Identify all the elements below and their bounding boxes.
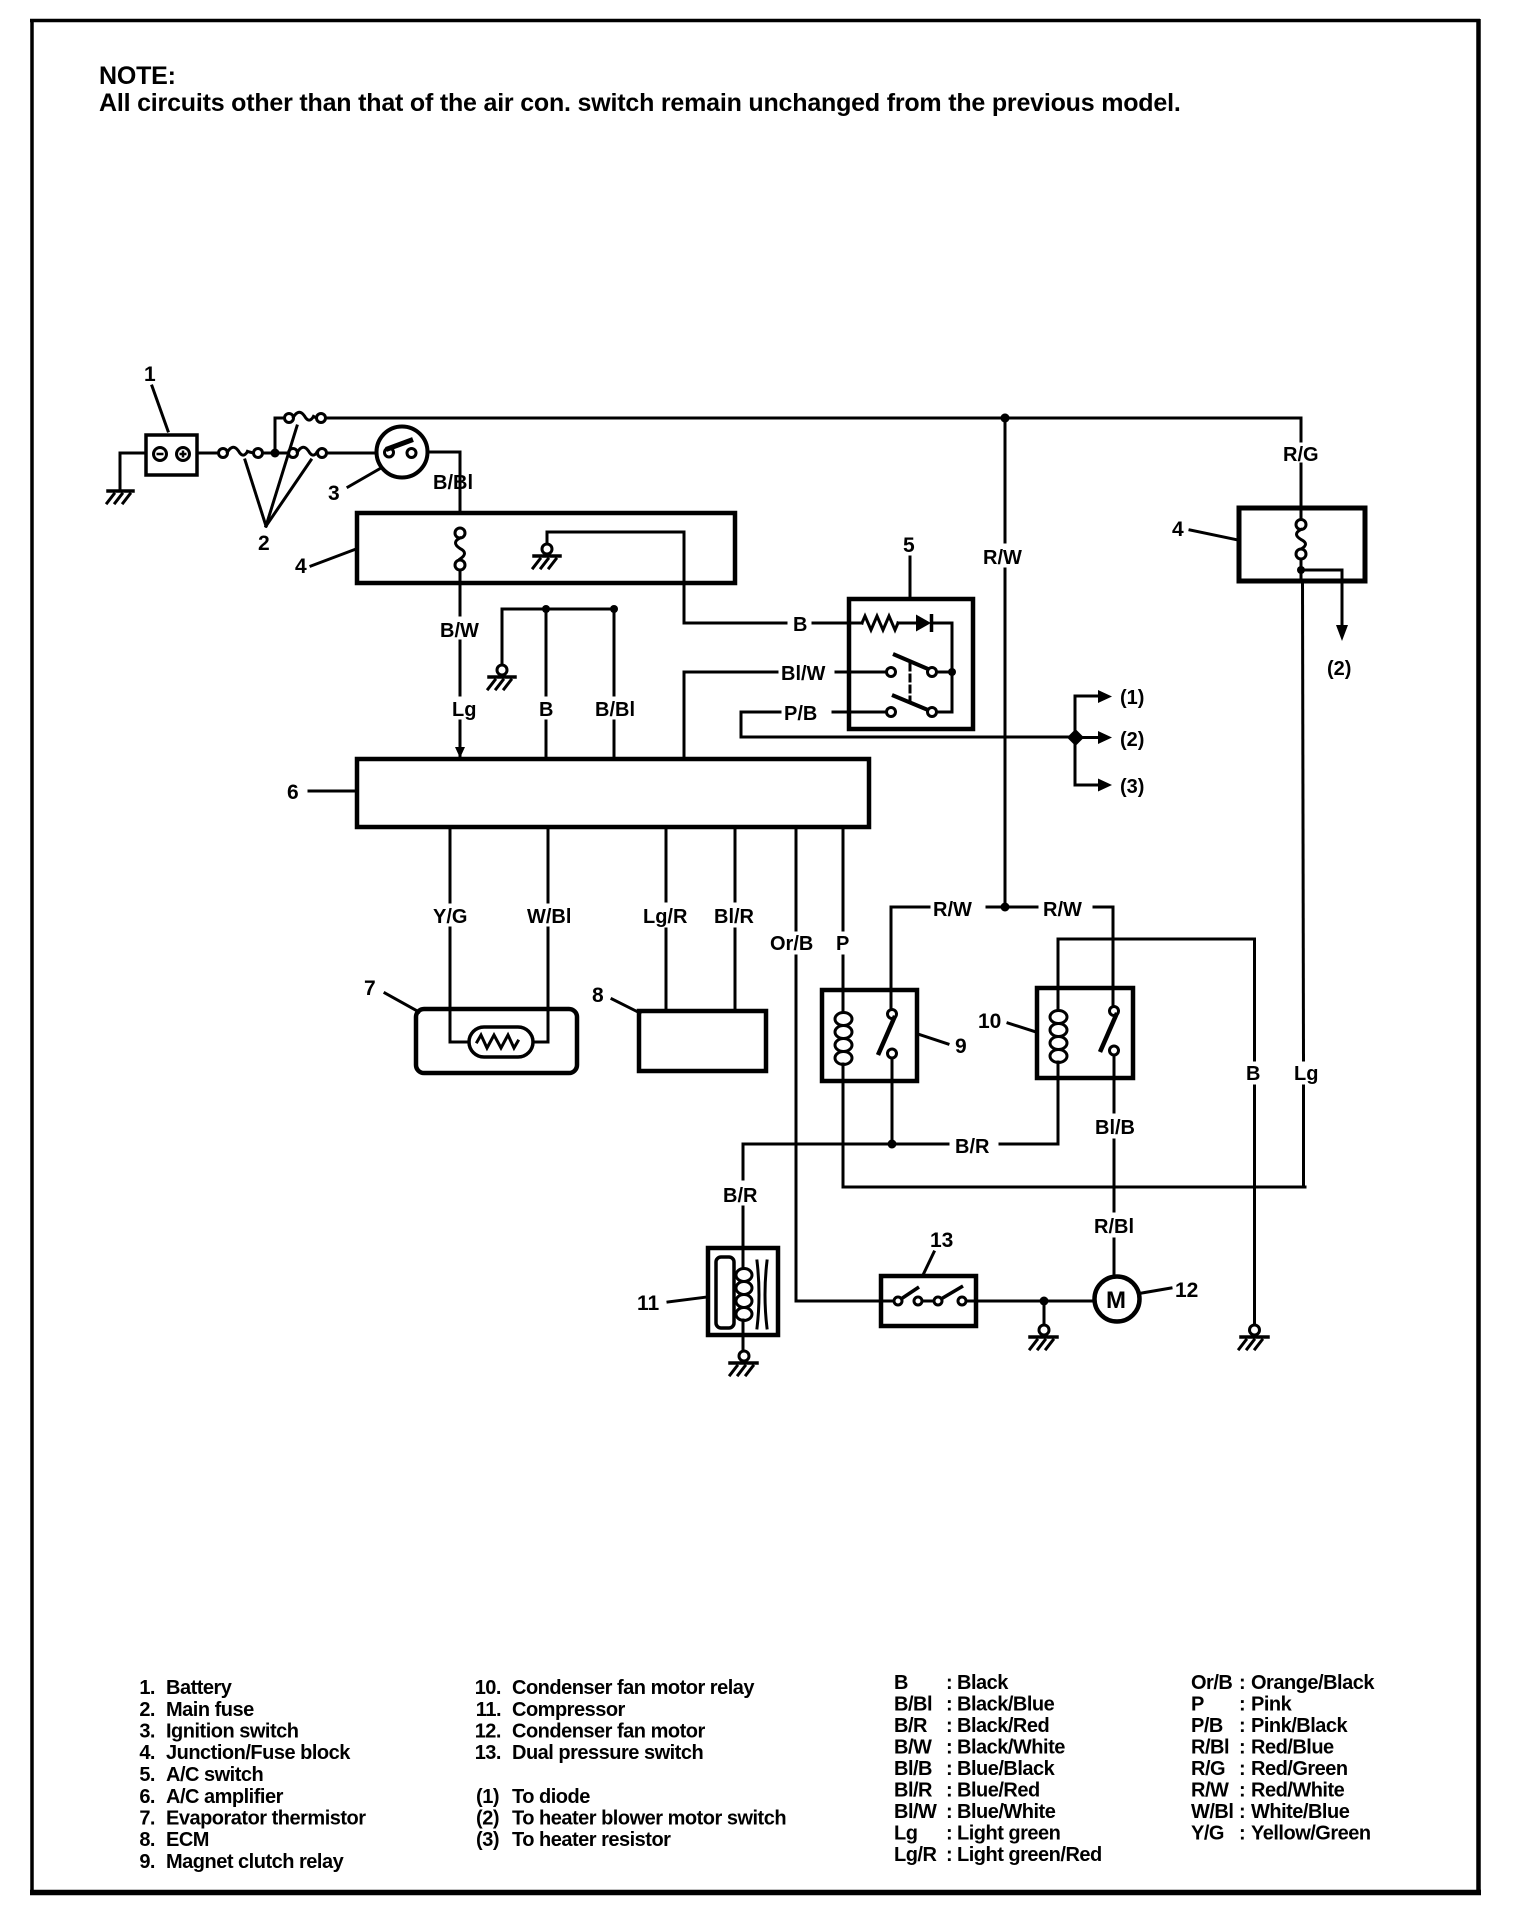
svg-text:10.: 10.: [475, 1677, 501, 1699]
svg-text:W/Bl: W/Bl: [1191, 1801, 1233, 1823]
svg-text:Pink: Pink: [1251, 1694, 1293, 1716]
svg-text:P: P: [836, 933, 849, 955]
svg-text:Orange/Black: Orange/Black: [1251, 1672, 1375, 1694]
svg-text::: :: [946, 1672, 952, 1694]
svg-text:Blue/Black: Blue/Black: [957, 1758, 1056, 1780]
svg-text:Bl/R: Bl/R: [714, 906, 755, 928]
svg-text:(1): (1): [476, 1786, 499, 1808]
svg-text:3.: 3.: [139, 1721, 155, 1743]
svg-text:6.: 6.: [139, 1786, 155, 1808]
svg-text::: :: [1239, 1715, 1245, 1737]
wire W/Bl: [533, 827, 548, 1042]
svg-text:(2): (2): [1120, 729, 1144, 751]
svg-text::: :: [946, 1737, 952, 1759]
label Or/B: [770, 933, 813, 955]
resistor (A/C switch): [849, 616, 898, 630]
wire junction up to top rail: [275, 418, 285, 453]
ignition switch 3: [377, 427, 428, 478]
label Bl/R: [714, 906, 755, 928]
note heading: [99, 62, 1181, 117]
svg-text:To heater blower motor switch: To heater blower motor switch: [512, 1808, 786, 1830]
wire ground rail bottom: [843, 1186, 1305, 1189]
svg-text:Black/White: Black/White: [957, 1737, 1065, 1759]
svg-text:Light green/Red: Light green/Red: [957, 1844, 1102, 1866]
node arrows bracket: [1067, 696, 1084, 785]
wire 13 to motor: [976, 1300, 1094, 1303]
A/C switch 5: [849, 599, 973, 729]
svg-text:P/B: P/B: [784, 703, 817, 725]
label 9: [918, 1034, 967, 1058]
svg-text:B: B: [894, 1672, 908, 1694]
ground (battery): [107, 491, 133, 503]
svg-text:Blue/Red: Blue/Red: [957, 1780, 1040, 1802]
svg-text:1: 1: [144, 363, 156, 386]
svg-text:R/G: R/G: [1283, 444, 1319, 466]
label (2) right: [1327, 658, 1351, 680]
label Bl/W: [781, 663, 826, 685]
svg-text:11.: 11.: [476, 1699, 501, 1721]
svg-text:Bl/W: Bl/W: [781, 663, 826, 685]
svg-text:Magnet clutch relay: Magnet clutch relay: [166, 1851, 345, 1873]
svg-text:Bl/W: Bl/W: [894, 1801, 937, 1823]
condenser fan motor relay 10: [1037, 988, 1133, 1078]
main fuse 2b (top rail): [285, 412, 326, 422]
wire Bl/R: [734, 827, 737, 1011]
wire R/W horizontal: [891, 907, 1113, 1009]
svg-text:Or/B: Or/B: [770, 933, 813, 955]
svg-text:To heater resistor: To heater resistor: [512, 1829, 671, 1851]
svg-text:Bl/B: Bl/B: [894, 1758, 932, 1780]
legend wire colors column 3: [894, 1672, 1102, 1866]
svg-text:Yellow/Green: Yellow/Green: [1251, 1823, 1371, 1845]
wire fuse to ignition switch: [327, 452, 377, 455]
svg-text:Condenser fan motor relay: Condenser fan motor relay: [512, 1677, 755, 1699]
wire B to amplifier: [545, 614, 548, 760]
ground (motor): [1030, 1325, 1057, 1349]
svg-text:10: 10: [978, 1010, 1001, 1033]
label 6: [287, 781, 356, 804]
wire B/R to compressor: [742, 1144, 745, 1248]
svg-text:Junction/Fuse block: Junction/Fuse block: [166, 1742, 351, 1764]
svg-text:A/C switch: A/C switch: [166, 1764, 263, 1786]
svg-text:B: B: [539, 699, 553, 721]
svg-text:Lg: Lg: [894, 1823, 917, 1845]
label R/W left: [933, 899, 972, 921]
svg-text:4: 4: [295, 555, 307, 578]
svg-text:Lg: Lg: [452, 699, 476, 721]
ECM 8: [639, 1011, 766, 1071]
svg-text::: :: [946, 1844, 952, 1866]
wire Bl/W from A/C switch to amplifier: [684, 672, 849, 759]
svg-text::: :: [946, 1715, 952, 1737]
svg-text::: :: [1239, 1780, 1245, 1802]
svg-text:Lg/R: Lg/R: [643, 906, 688, 928]
main fuse 2c: [289, 447, 327, 457]
label (3): [1120, 776, 1144, 798]
svg-text::: :: [946, 1758, 952, 1780]
svg-text:Black: Black: [957, 1672, 1009, 1694]
label Bl/B: [1095, 1117, 1135, 1139]
label B/Bl: [433, 472, 473, 494]
svg-text:B/W: B/W: [894, 1737, 932, 1759]
svg-text:W/Bl: W/Bl: [527, 906, 571, 928]
svg-text:White/Blue: White/Blue: [1251, 1801, 1350, 1823]
label B: [539, 699, 553, 721]
switch contact Bl/W row: [849, 654, 956, 677]
relay 10 switch: [1100, 1007, 1119, 1113]
svg-text:(3): (3): [476, 1829, 499, 1851]
svg-text:R/Bl: R/Bl: [1191, 1737, 1229, 1759]
ground (compressor): [730, 1351, 757, 1375]
wire and junction: [263, 449, 289, 458]
svg-text:4: 4: [1172, 518, 1184, 541]
svg-text::: :: [1239, 1694, 1245, 1716]
compressor clutch bars: [757, 1261, 767, 1328]
wire relay10 coil to B line: [1058, 939, 1255, 1325]
svg-text:5: 5: [903, 534, 915, 557]
svg-text:Red/White: Red/White: [1251, 1780, 1345, 1802]
svg-text::: :: [946, 1780, 952, 1802]
svg-text:11: 11: [637, 1292, 660, 1315]
wire Or/B: [796, 827, 881, 1301]
label B/Bl: [595, 699, 635, 721]
svg-text:B/R: B/R: [723, 1185, 758, 1207]
svg-text:Evaporator thermistor: Evaporator thermistor: [166, 1808, 366, 1830]
ground (amplifier rail): [488, 665, 515, 689]
svg-text:2: 2: [258, 532, 270, 555]
node B/R: [888, 1140, 897, 1149]
svg-text:Blue/White: Blue/White: [957, 1801, 1056, 1823]
svg-text:R/W: R/W: [1043, 899, 1082, 921]
ground rail above amplifier: [502, 609, 614, 665]
svg-text:Bl/B: Bl/B: [1095, 1117, 1135, 1139]
dashed link between contacts: [909, 664, 912, 702]
label 7: [364, 977, 419, 1012]
compressor 11: [708, 1248, 778, 1335]
ground (B line): [1239, 1325, 1268, 1349]
svg-text:B/R: B/R: [955, 1136, 990, 1158]
svg-text:P/B: P/B: [1191, 1715, 1223, 1737]
evaporator thermistor 7: [416, 1009, 577, 1073]
svg-text:12: 12: [1175, 1279, 1198, 1302]
svg-text:3: 3: [328, 482, 340, 505]
wire branch to heater blower arrow: [1301, 570, 1348, 641]
wire P/B from A/C switch to heater: [741, 712, 1075, 737]
wire Lg/R: [665, 827, 668, 1011]
wire battery to ground: [120, 453, 146, 489]
magnet clutch relay 9: [822, 990, 917, 1081]
svg-text:9.: 9.: [139, 1851, 155, 1873]
svg-text:To diode: To diode: [512, 1786, 590, 1808]
svg-text:(2): (2): [1327, 658, 1351, 680]
diode (A/C switch): [898, 614, 952, 712]
label B/R: [955, 1136, 990, 1158]
svg-text:13.: 13.: [475, 1742, 501, 1764]
svg-text:B/Bl: B/Bl: [894, 1694, 932, 1716]
svg-text:7: 7: [364, 977, 376, 1000]
svg-text::: :: [946, 1694, 952, 1716]
svg-text:M: M: [1106, 1287, 1126, 1314]
label W/Bl: [527, 906, 571, 928]
svg-text:Dual pressure switch: Dual pressure switch: [512, 1742, 703, 1764]
svg-text:B: B: [793, 614, 807, 636]
svg-text:8.: 8.: [139, 1829, 155, 1851]
node B/Bl: [610, 605, 618, 613]
svg-text:B/Bl: B/Bl: [595, 699, 635, 721]
label 2: [245, 426, 311, 555]
arrow (2): [1075, 731, 1112, 744]
svg-text:B/R: B/R: [894, 1715, 928, 1737]
compressor coil: [736, 1248, 752, 1351]
label (2): [1120, 729, 1144, 751]
label B: [1246, 1063, 1260, 1085]
wire Y/G: [450, 827, 469, 1042]
svg-text:R/W: R/W: [983, 547, 1022, 569]
wire Bl/B R/Bl to motor: [1113, 1140, 1116, 1276]
fuse in block 4: [455, 528, 465, 570]
svg-text:Black/Blue: Black/Blue: [957, 1694, 1055, 1716]
node top rail / R-W: [1001, 414, 1010, 423]
svg-text:R/G: R/G: [1191, 1758, 1225, 1780]
svg-text::: :: [1239, 1672, 1245, 1694]
junction/fuse block 4 (right): [1239, 508, 1365, 581]
svg-text:A/C amplifier: A/C amplifier: [166, 1786, 284, 1808]
svg-text:Compressor: Compressor: [512, 1699, 626, 1721]
svg-text:B/Bl: B/Bl: [433, 472, 473, 494]
arrow (1): [1075, 690, 1112, 703]
svg-text:NOTE:: NOTE:: [99, 62, 176, 90]
label 10: [978, 1010, 1036, 1033]
arrow (3): [1075, 779, 1112, 792]
label 4: [295, 549, 356, 578]
svg-text:Red/Green: Red/Green: [1251, 1758, 1348, 1780]
label Lg: [452, 699, 476, 721]
label 5: [903, 534, 915, 598]
wire B/W fuse output: [455, 570, 465, 758]
label 3: [328, 468, 381, 505]
svg-text:P: P: [1191, 1694, 1204, 1716]
top rail wire: [326, 417, 1302, 420]
svg-text:12.: 12.: [475, 1721, 501, 1743]
svg-text:B/W: B/W: [440, 620, 479, 642]
svg-text:Ignition switch: Ignition switch: [166, 1721, 299, 1743]
label 1: [144, 363, 168, 431]
wire R/W vertical: [1001, 414, 1010, 908]
svg-text::: :: [1239, 1801, 1245, 1823]
label 12: [1142, 1279, 1198, 1302]
svg-text:R/Bl: R/Bl: [1094, 1216, 1134, 1238]
svg-text:Black/Red: Black/Red: [957, 1715, 1049, 1737]
svg-text::: :: [1239, 1737, 1245, 1759]
svg-text:7.: 7.: [139, 1808, 155, 1830]
label 8: [592, 984, 640, 1013]
switch contacts 13: [881, 1286, 976, 1305]
svg-text:(3): (3): [1120, 776, 1144, 798]
dual pressure switch 13: [881, 1276, 976, 1326]
svg-text:B: B: [1246, 1063, 1260, 1085]
label R/W: [983, 547, 1022, 569]
label 11: [637, 1292, 707, 1315]
A/C amplifier 6: [357, 759, 869, 827]
label Lg/R: [643, 906, 688, 928]
svg-text::: :: [1239, 1758, 1245, 1780]
svg-text:Red/Blue: Red/Blue: [1251, 1737, 1334, 1759]
svg-text:9: 9: [955, 1035, 967, 1058]
svg-text:13: 13: [930, 1229, 953, 1252]
label (1): [1120, 687, 1144, 709]
main fuse 2a: [219, 447, 263, 457]
svg-text:4.: 4.: [139, 1742, 155, 1764]
svg-text:2.: 2.: [139, 1699, 155, 1721]
wire B/R horizontal: [743, 1143, 1058, 1146]
svg-text:8: 8: [592, 984, 604, 1007]
svg-text:(2): (2): [476, 1808, 499, 1830]
wire R/G down from top rail: [1300, 418, 1303, 508]
svg-text:R/W: R/W: [933, 899, 972, 921]
relay 9 switch: [878, 1010, 897, 1145]
svg-text::: :: [946, 1801, 952, 1823]
label 4 (right): [1172, 518, 1238, 541]
legend components column 1: [139, 1677, 366, 1873]
svg-text:(1): (1): [1120, 687, 1144, 709]
condenser fan motor 12: [1095, 1277, 1140, 1322]
wire block4 ground to B node of A/C switch: [547, 532, 849, 623]
node R/W: [1001, 903, 1010, 912]
label Y/G: [433, 906, 467, 928]
thermistor element: [469, 1027, 533, 1057]
label R/W right: [1043, 899, 1082, 921]
wire ignition switch to junction block, B/Bl: [428, 452, 461, 513]
label Lg: [1294, 1063, 1318, 1085]
label B/R vertical: [723, 1185, 758, 1207]
svg-text:All circuits other than that o: All circuits other than that of the air …: [99, 89, 1181, 117]
label B/W: [440, 620, 479, 642]
svg-text:Battery: Battery: [166, 1677, 233, 1699]
node B: [542, 605, 550, 613]
svg-text:Y/G: Y/G: [1191, 1823, 1224, 1845]
wire B/Bl to amplifier: [613, 614, 616, 760]
svg-text:Or/B: Or/B: [1191, 1672, 1232, 1694]
wire Lg main vertical: [1301, 570, 1304, 1187]
svg-text:R/W: R/W: [1191, 1780, 1229, 1802]
wire battery to fuse: [197, 452, 218, 455]
legend components column 2: [475, 1677, 786, 1851]
label P: [836, 933, 849, 955]
compressor plate: [716, 1257, 734, 1328]
node below fuse: [1297, 559, 1305, 574]
svg-text:Y/G: Y/G: [433, 906, 467, 928]
svg-text:Light green: Light green: [957, 1823, 1060, 1845]
label 13: [923, 1229, 953, 1275]
relay 9 coil: [835, 990, 852, 1187]
legend wire colors column 4: [1191, 1672, 1375, 1845]
svg-text:Pink/Black: Pink/Black: [1251, 1715, 1349, 1737]
ground inside block 4: [533, 544, 560, 568]
svg-text:Lg/R: Lg/R: [894, 1844, 937, 1866]
svg-text:Condenser fan motor: Condenser fan motor: [512, 1721, 705, 1743]
svg-text:Lg: Lg: [1294, 1063, 1318, 1085]
label R/Bl: [1094, 1216, 1134, 1238]
svg-text:6: 6: [287, 781, 299, 804]
node motor ground: [1040, 1297, 1049, 1326]
svg-text:1.: 1.: [139, 1677, 155, 1699]
relay 10 coil: [1050, 988, 1067, 1144]
label B (into A/C switch): [793, 614, 807, 636]
svg-text:Main fuse: Main fuse: [166, 1699, 254, 1721]
fuse in block 4 right: [1296, 508, 1306, 559]
switch contact P/B row: [849, 695, 952, 717]
label R/G: [1283, 444, 1319, 466]
svg-text::: :: [946, 1823, 952, 1845]
battery 1: [146, 435, 197, 475]
wire P: [842, 827, 845, 990]
label P/B: [784, 703, 817, 725]
svg-text:5.: 5.: [139, 1764, 155, 1786]
svg-text:ECM: ECM: [166, 1829, 209, 1851]
junction/fuse block 4 (left): [357, 513, 735, 583]
svg-text:Bl/R: Bl/R: [894, 1780, 933, 1802]
svg-text::: :: [1239, 1823, 1245, 1845]
